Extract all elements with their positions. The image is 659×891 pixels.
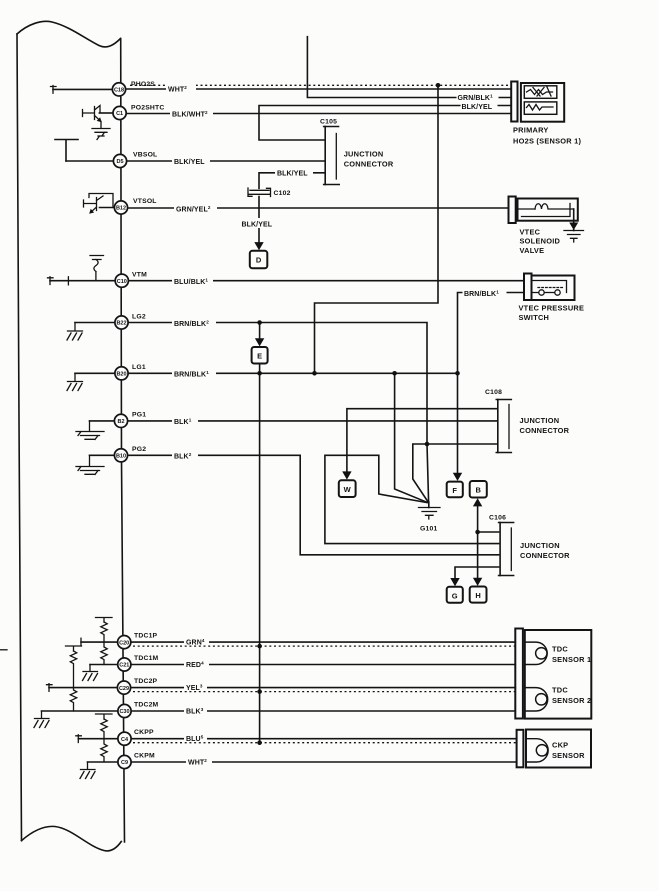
svg-text:G: G	[452, 591, 458, 600]
svg-text:C18: C18	[114, 88, 124, 94]
resistor pair (TDC1 bias)	[96, 618, 113, 665]
junction connector C108	[485, 389, 511, 453]
box G	[447, 587, 463, 603]
svg-text:CKPP: CKPP	[134, 729, 154, 736]
TDC sensors connector bar	[515, 629, 523, 719]
label BLK/YEL (C105 pin3 stub)	[275, 167, 313, 178]
svg-text:BLU/BLK1: BLU/BLK1	[174, 277, 208, 286]
primary HO2S sensor connector bar	[511, 82, 517, 122]
wire solenoid to ground	[573, 209, 575, 231]
svg-text:H: H	[475, 591, 480, 600]
pin B22 LG2	[75, 314, 146, 330]
wire C108 pin3 to G101	[413, 444, 497, 502]
label BLK2 (PG2 wire)	[172, 450, 198, 461]
svg-text:C108: C108	[485, 389, 502, 396]
svg-text:BRN/BLK1: BRN/BLK1	[174, 370, 209, 379]
ECM torn-paper bottom edge	[22, 826, 122, 850]
svg-text:JUNCTION: JUNCTION	[520, 416, 560, 425]
box F	[447, 482, 463, 498]
box E	[252, 347, 268, 364]
label RED4 (TDC1M wire)	[184, 659, 209, 670]
wire shield drain of WHT down-left to LG1	[315, 85, 439, 373]
label BRN/BLK2 (LG2 wire)	[172, 317, 216, 328]
chassis ground (TDC2M)	[34, 711, 49, 728]
svg-text:C102: C102	[274, 190, 291, 197]
ground G101	[419, 502, 441, 533]
label GRN4 (TDC1P wire)	[184, 636, 209, 647]
pin C20 TDC1P	[81, 633, 158, 649]
svg-text:C105: C105	[320, 119, 337, 126]
junction node on WHT shield at x438	[436, 83, 441, 88]
wire YEL (TDC2P) C29 to TDC sensor 2	[131, 687, 516, 689]
svg-text:PG2: PG2	[132, 446, 146, 453]
junction node LG1/HO2S-shield	[312, 371, 317, 376]
HO2S sensing element	[524, 86, 557, 99]
svg-text:BLK/YEL: BLK/YEL	[174, 159, 205, 166]
box H	[470, 587, 487, 603]
svg-text:C1: C1	[116, 111, 123, 117]
pin B10 PG2	[90, 446, 147, 462]
pressure switch contacts	[532, 281, 567, 296]
svg-text:W: W	[344, 485, 352, 494]
svg-text:BLK/YEL: BLK/YEL	[242, 222, 273, 229]
chassis ground (LG2)	[67, 323, 83, 341]
svg-text:C21: C21	[119, 663, 129, 669]
label BLU5 (CKPP wire)	[184, 733, 207, 744]
svg-text:SENSOR: SENSOR	[552, 751, 585, 760]
resistor pair (TDC2 bias)	[66, 646, 82, 711]
in-line connector C102	[248, 188, 291, 197]
svg-text:CONNECTOR: CONNECTOR	[520, 551, 570, 560]
arrow into box D	[254, 242, 263, 250]
resistor pair (CKP bias)	[96, 714, 113, 762]
label GRN/BLK1 (HO2S ground wire)	[457, 93, 499, 103]
svg-text:BRN/BLK2: BRN/BLK2	[174, 319, 209, 328]
arrow into box W	[342, 471, 351, 479]
wire WHT (CKPM) C9 to CKP sensor	[131, 761, 516, 763]
pin C10 VTM	[48, 272, 148, 288]
pin B20 LG1	[75, 364, 146, 380]
CKP sensor connector bar	[517, 730, 524, 768]
svg-text:VALVE: VALVE	[520, 246, 545, 255]
power feed symbol (VBSOL)	[55, 140, 78, 162]
ECM torn-paper left edge	[17, 34, 22, 841]
label WHT2 (PHO2S wire)	[166, 81, 196, 94]
svg-text:B20: B20	[116, 372, 126, 378]
ECM connector bus line	[121, 39, 125, 843]
svg-text:BLK/YEL: BLK/YEL	[277, 171, 308, 178]
wire BRN/BLK1 branch from VTEC pressure switch down to LG1 and box F	[458, 293, 525, 475]
wire BLK/WHT (PO2SHTC) C1 to HO2S heater	[127, 113, 512, 115]
svg-text:GRN/YEL2: GRN/YEL2	[176, 205, 211, 214]
junction node CKP shield	[257, 740, 262, 745]
svg-text:C30: C30	[119, 709, 129, 715]
ground (VTEC solenoid valve)	[564, 223, 584, 243]
wire BRN/BLK2 (LG2) B22 right then down to G101	[129, 323, 428, 445]
ground (Q1 emitter)	[92, 129, 110, 140]
wire BLK (TDC2M) C30 to TDC sensor 2	[131, 710, 515, 712]
svg-text:PO2SHTC: PO2SHTC	[131, 105, 165, 112]
svg-text:G101: G101	[420, 526, 437, 533]
transistor Q1 (PO2SHTC driver)	[83, 106, 102, 129]
svg-text:BLK/WHT2: BLK/WHT2	[172, 110, 208, 119]
svg-text:CONNECTOR: CONNECTOR	[344, 160, 394, 169]
capacitor (VTM filter)	[90, 256, 104, 281]
junction node TDC1 shield	[257, 644, 262, 649]
box W	[339, 480, 356, 497]
svg-text:B22: B22	[116, 321, 126, 327]
svg-text:GRN/BLK1: GRN/BLK1	[458, 94, 494, 103]
arrow into box F	[453, 473, 462, 481]
svg-text:VTM: VTM	[132, 272, 147, 279]
svg-text:TDC: TDC	[552, 686, 568, 695]
svg-text:CONNECTOR: CONNECTOR	[520, 426, 570, 435]
CKP sensor body	[526, 730, 591, 768]
wire BLK/YEL below C102 down to box D	[258, 197, 260, 244]
label BLK1 (PG1 wire)	[172, 415, 198, 426]
box B	[470, 481, 487, 498]
svg-text:BLK/YEL: BLK/YEL	[462, 104, 493, 111]
junction node TDC2 shield	[257, 689, 262, 694]
TDC sensors body	[525, 630, 592, 719]
scan artifact dash at left page edge	[1, 649, 8, 651]
pin B2 PG1	[90, 412, 147, 428]
TDC sensor 2 pickup coil	[525, 688, 548, 711]
svg-text:TDC2P: TDC2P	[134, 678, 158, 685]
svg-text:CKP: CKP	[552, 741, 568, 750]
label YEL3 (TDC2P wire)	[184, 682, 207, 693]
pin C21 TDC1M	[90, 655, 159, 671]
label BLK/YEL (HO2S heater wire)	[461, 102, 498, 112]
label BRN/BLK1 (pressure switch wire)	[463, 287, 507, 298]
svg-text:CKPM: CKPM	[134, 753, 155, 760]
wire C106 pin2 to G101	[325, 455, 499, 543]
svg-text:C106: C106	[489, 515, 506, 522]
junction node LG1/pressure-switch branch	[455, 371, 460, 376]
CKP sensor pickup coil	[526, 739, 548, 762]
svg-text:LG2: LG2	[132, 314, 146, 321]
HO2S heater element	[524, 102, 557, 114]
wire GRN/BLK (HO2S ground) from top of page	[307, 37, 511, 98]
pin D5 VBSOL	[66, 152, 157, 168]
svg-text:JUNCTION: JUNCTION	[520, 541, 560, 550]
svg-text:C4: C4	[121, 737, 129, 743]
junction connector C106	[489, 515, 514, 576]
svg-text:D5: D5	[116, 159, 123, 165]
svg-text:B: B	[475, 486, 481, 495]
shield dashed line of WHT wire	[130, 84, 511, 86]
VTEC pressure switch connector bar	[524, 274, 532, 301]
arrow into box E	[255, 338, 264, 346]
svg-text:JUNCTION: JUNCTION	[344, 150, 384, 159]
svg-text:WHT2: WHT2	[168, 85, 187, 94]
pin B12 VTSOL	[100, 198, 157, 214]
label WHT2 (CKPM wire)	[186, 756, 212, 767]
wire C106 pin4 to box G	[455, 567, 499, 581]
wire LG1 tap down to G101	[395, 373, 428, 502]
junction node LG2 to E	[257, 320, 262, 325]
label BLK/YEL (VBSOL wire)	[172, 155, 210, 166]
wire BRN/BLK1 (LG1) B20 to pressure-switch branch	[129, 372, 458, 374]
arrow into box H	[473, 578, 482, 586]
wire GRN/YEL (VTSOL) B12 to VTEC solenoid valve	[128, 207, 509, 209]
pin C1 PO2SHTC	[99, 105, 164, 120]
svg-text:VTSOL: VTSOL	[133, 198, 157, 205]
wire BLK/YEL C105 to C102 to D	[259, 173, 324, 189]
label GRN/YEL2 (VTSOL wire)	[174, 203, 217, 214]
wire BLK1 (PG1) B2 to C108	[128, 420, 497, 422]
TDC sensor 1 pickup coil	[525, 642, 547, 664]
box D	[250, 251, 267, 268]
pin C18 PHO2S	[51, 81, 156, 96]
svg-text:PRIMARY: PRIMARY	[513, 126, 549, 135]
svg-text:C9: C9	[121, 760, 128, 766]
svg-text:D: D	[256, 256, 262, 265]
wire WHT (PHO2S signal) to HO2S	[126, 88, 512, 90]
chassis ground (TDC1M)	[83, 665, 98, 681]
junction connector C105	[320, 119, 339, 185]
svg-text:SWITCH: SWITCH	[519, 313, 550, 322]
svg-text:C20: C20	[119, 640, 129, 646]
svg-text:SOLENOID: SOLENOID	[520, 237, 561, 246]
pin C9 CKPM	[88, 753, 155, 769]
svg-text:TDC1M: TDC1M	[134, 655, 159, 662]
wire E-box / shield drain vertical LG2 to CKP shield	[259, 323, 261, 341]
chassis ground (LG1)	[67, 373, 83, 390]
junction node B-H vertical / C106 pin1	[475, 530, 480, 535]
wire BLK/YEL (HO2S heater feed) to C105	[259, 106, 511, 141]
svg-text:TDC: TDC	[552, 645, 568, 654]
shield dashed line of CKPP	[133, 742, 517, 744]
wire C108 pin1 to box W	[347, 409, 496, 473]
pin C29 TDC2P	[47, 678, 158, 694]
VTEC pressure switch body	[532, 276, 575, 301]
svg-text:LG1: LG1	[132, 364, 146, 371]
wire BLK2 (PG2) B10 routed down and right to C106	[128, 455, 499, 555]
label BLU/BLK1 (VTM wire)	[172, 275, 213, 286]
svg-text:C10: C10	[117, 279, 127, 285]
shield dashed line of TDC2P	[133, 691, 515, 693]
svg-text:SENSOR 2: SENSOR 2	[552, 696, 591, 705]
ground (PG1)	[76, 421, 104, 440]
svg-text:VBSOL: VBSOL	[133, 152, 157, 159]
wire RED (TDC1M) C21 to TDC sensor 1	[131, 664, 515, 666]
svg-text:TDC1P: TDC1P	[134, 633, 158, 640]
label BRN/BLK1 (LG1 wire)	[172, 368, 216, 379]
ground (PG2)	[76, 455, 104, 474]
junction node LG2-drop / C108 pin3 wire	[425, 442, 430, 447]
wire GRN (TDC1P) C20 to TDC sensor 1	[131, 641, 515, 643]
svg-text:PHO2S: PHO2S	[131, 81, 155, 88]
wire C106 pin1 stub to B/H vertical	[478, 531, 499, 533]
svg-text:C29: C29	[119, 686, 129, 692]
svg-text:E: E	[257, 352, 262, 361]
transistor Q2 (VTSOL driver) with clamp line	[84, 194, 114, 214]
junction node LG1/E-drain	[257, 371, 262, 376]
ECM torn-paper top edge	[17, 21, 121, 47]
junction node LG1/G101 tap	[392, 371, 397, 376]
pin C30 TDC2M	[42, 702, 159, 718]
label BLK/WHT2 (PO2SHTC wire)	[170, 108, 213, 119]
wire LG2 bend down to G101	[427, 444, 429, 502]
wire BLK/YEL (VBSOL) D5 to C105	[127, 160, 324, 162]
chassis ground (CKPM)	[80, 762, 95, 779]
svg-text:SENSOR 1: SENSOR 1	[552, 655, 591, 664]
wire boxes B to H vertical through C106 pin1	[477, 505, 479, 580]
svg-text:BRN/BLK1: BRN/BLK1	[464, 289, 499, 298]
label BLK/YEL (to D)	[241, 218, 279, 229]
primary HO2S sensor body	[521, 83, 564, 122]
arrow into box B (pointing up)	[473, 498, 482, 506]
svg-text:VTEC PRESSURE: VTEC PRESSURE	[519, 304, 585, 313]
svg-text:VTEC: VTEC	[520, 228, 541, 237]
svg-text:F: F	[452, 486, 457, 495]
label BLK3 (TDC2M wire)	[184, 705, 207, 716]
wire BLU (CKPP) C4 to CKP sensor	[131, 738, 516, 740]
shield dashed line of TDC1P	[133, 645, 515, 647]
wire BLU/BLK (VTM) C10 to VTEC pressure switch	[129, 280, 524, 282]
VTEC solenoid valve connector bar	[509, 197, 516, 224]
svg-text:B12: B12	[116, 206, 126, 212]
pin C4 CKPP	[76, 729, 154, 745]
solenoid coil	[518, 204, 574, 217]
svg-text:PG1: PG1	[132, 412, 146, 419]
svg-text:TDC2M: TDC2M	[134, 702, 159, 709]
VTEC solenoid valve body	[518, 199, 578, 221]
svg-text:B2: B2	[117, 419, 124, 425]
arrow into box G	[450, 578, 459, 586]
svg-text:HO2S (SENSOR 1): HO2S (SENSOR 1)	[513, 137, 582, 146]
svg-text:B10: B10	[116, 454, 126, 460]
